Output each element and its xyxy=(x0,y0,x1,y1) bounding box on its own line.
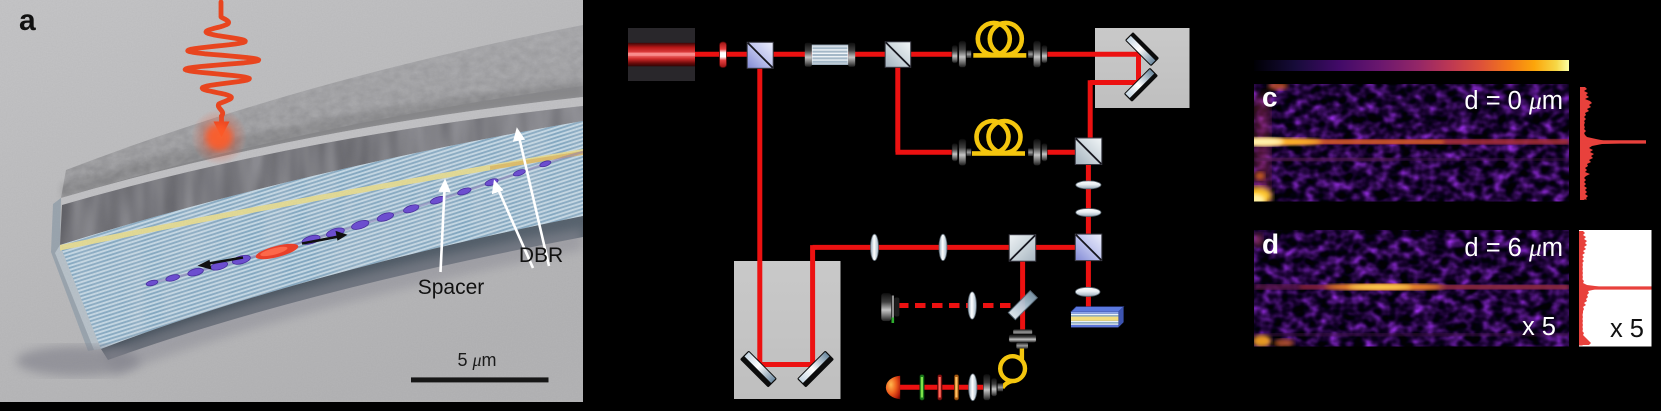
arrow to spacer xyxy=(438,179,450,273)
waveguide left end facet xyxy=(51,198,101,351)
white-light beam xyxy=(898,385,990,390)
fiber loop 1 xyxy=(973,53,1026,58)
svg-text:d = 6 μm: d = 6 μm xyxy=(1464,233,1563,262)
beam: BS2 to fiber coupler xyxy=(910,52,953,57)
sample (DBR waveguide chip) xyxy=(1071,307,1124,312)
beam: delay box 2 up to BS5 row xyxy=(810,245,815,364)
lens L6 xyxy=(968,292,976,319)
excitation spot glow xyxy=(191,109,247,165)
svg-text:d: d xyxy=(1262,229,1279,260)
beam: delay 2 to BS5 to BS4 xyxy=(813,245,1076,250)
laser xyxy=(628,28,695,81)
white-light lamp xyxy=(886,376,900,400)
beam: fiber to delay box 1 mirror xyxy=(1047,52,1139,57)
panel c heatmap xyxy=(1238,82,1569,206)
top face front-edge shading xyxy=(61,81,583,198)
arrow left (pulse direction) xyxy=(198,258,244,270)
beam splitter BS3 xyxy=(1075,138,1102,165)
fiber coupler 1 out xyxy=(1028,50,1033,58)
svg-text:5 μm: 5 μm xyxy=(457,350,496,370)
beam: BS3 down to BS4 xyxy=(1086,164,1091,235)
spacer layer (yellow line) xyxy=(60,149,583,251)
fiber coupler 1 in xyxy=(952,45,958,63)
svg-text:x 5: x 5 xyxy=(1522,313,1556,341)
scale bar 5 um xyxy=(411,377,549,382)
svg-text:Spacer: Spacer xyxy=(418,276,485,299)
grain overlay xyxy=(0,0,583,402)
lens L4 xyxy=(939,234,947,260)
beam: delay box 1 vertical xyxy=(1136,54,1141,82)
mirror M4 in delay box 2 xyxy=(797,350,834,387)
panel a: false-coloured SEM image of DBR waveguide xyxy=(0,0,583,402)
beam: BS5 down to fiber port xyxy=(1020,260,1025,333)
fiber coupler 3 xyxy=(983,374,990,400)
lens L3 xyxy=(871,234,879,260)
lens L1 xyxy=(1076,181,1101,189)
fiber loop 2 xyxy=(972,151,1025,156)
panel d spectrum plot xyxy=(1579,230,1652,347)
lens L7 xyxy=(969,374,977,401)
DBR bottom dark edge xyxy=(101,216,583,360)
arrows to DBR xyxy=(492,127,549,268)
polariton pulse train (purple dots) xyxy=(146,160,552,287)
beam: BS1 to etalon to BS2 xyxy=(771,52,886,57)
shadow on substrate xyxy=(101,228,583,375)
svg-text:a: a xyxy=(19,4,36,37)
cap front lip highlight xyxy=(61,97,583,205)
beam: delay box 2 horizontal xyxy=(758,362,815,367)
lens L2 xyxy=(1076,209,1101,217)
beam: dashed detection path xyxy=(898,303,1016,308)
beam: laser to BS1 xyxy=(695,52,748,57)
etalon / pulse shaper xyxy=(805,43,812,67)
waveguide metal front face xyxy=(60,106,583,245)
beam splitter BS1 xyxy=(747,42,773,68)
fiber coupler 2 in xyxy=(952,144,958,162)
beam: row 2 to fiber 2 xyxy=(896,150,954,155)
beam: BS1 down to delay box 2 xyxy=(757,68,762,365)
mirror M1 in delay box 1 xyxy=(1125,32,1159,66)
arrow right (pulse direction) xyxy=(302,231,348,244)
beam splitter BS4 (polarizing) xyxy=(1075,234,1102,261)
filter F2 (red) xyxy=(938,375,942,401)
colour bar xyxy=(1254,60,1569,71)
fiber coupler 2 out xyxy=(1028,149,1033,157)
panel d heatmap xyxy=(1253,230,1569,347)
excitation laser pulse (red oscillation) xyxy=(185,2,259,116)
flip mirror / beam sampler xyxy=(1008,291,1037,320)
beam: BS2 down xyxy=(895,66,900,152)
mirror M3 in delay box 2 xyxy=(740,350,777,387)
panel c spectrum plot xyxy=(1580,87,1646,200)
cavity line (faint) xyxy=(152,152,583,283)
fiber port under sampler xyxy=(1013,329,1032,334)
beam: BS4 to sample xyxy=(1086,259,1091,309)
mirror M2 in delay box 1 xyxy=(1124,68,1158,102)
svg-text:d = 0 μm: d = 0 μm xyxy=(1464,86,1563,115)
svg-text:x 5: x 5 xyxy=(1610,315,1644,343)
waveguide top metal face xyxy=(61,25,583,198)
delay stage box 1 xyxy=(1095,28,1190,108)
beam splitter BS5 (gray) xyxy=(1009,235,1035,262)
pulse arrowhead xyxy=(219,115,224,124)
lens L5 objective xyxy=(1075,287,1100,296)
filter F3 (orange) xyxy=(954,375,958,401)
photodetector xyxy=(881,293,892,322)
fiber to spectrometer xyxy=(1020,349,1024,360)
DBR stack front face xyxy=(60,121,583,349)
delay stage box 2 xyxy=(734,261,841,399)
beam: delay box 1 return xyxy=(1090,80,1138,85)
svg-text:DBR: DBR xyxy=(519,244,563,267)
svg-text:c: c xyxy=(1262,82,1278,113)
filter F1 (green) xyxy=(920,375,924,401)
panel b: optical setup schematic xyxy=(628,23,1190,401)
attenuator / waveplate xyxy=(720,42,727,68)
bright soliton (red blob) xyxy=(254,241,299,263)
beam splitter BS2 xyxy=(885,42,911,68)
beam: fiber 2 to BS3 xyxy=(1047,150,1076,155)
